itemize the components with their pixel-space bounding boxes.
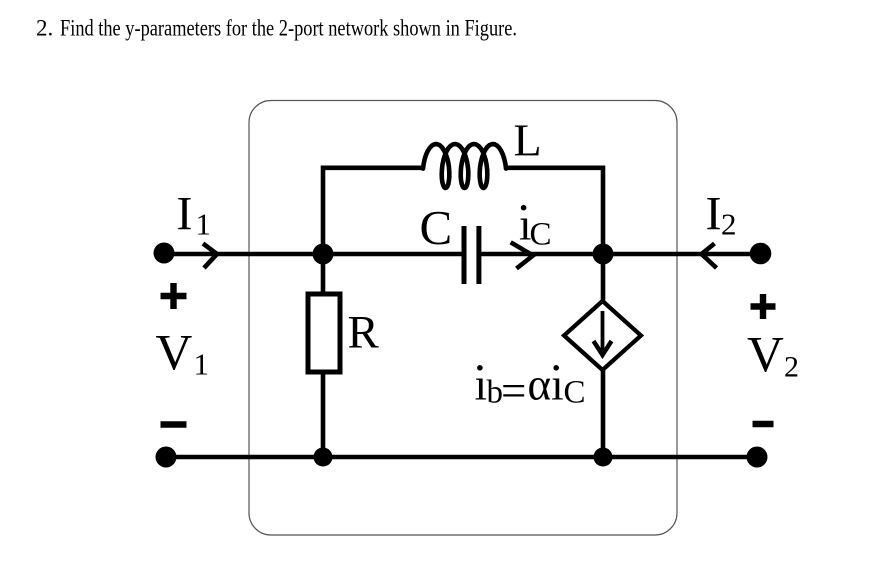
- svg-text:2: 2: [721, 207, 737, 242]
- resistor branch wire upper: [321, 252, 326, 296]
- svg-text:2.: 2.: [36, 16, 53, 41]
- svg-text:=: =: [501, 366, 526, 416]
- resistor R body: [308, 294, 340, 372]
- port2 current I2 arrow: [702, 244, 717, 269]
- wire capacitor to port2: [481, 252, 759, 257]
- port1 minus sign: [161, 421, 187, 427]
- dependent current source ib diamond: [564, 301, 641, 370]
- node dot top-left: [313, 244, 334, 265]
- svg-text:1: 1: [196, 207, 212, 242]
- node dot bottom-right: [594, 448, 613, 467]
- node dot bottom-left: [314, 448, 333, 467]
- network boundary box: [249, 101, 677, 536]
- port2 plus sign: [751, 294, 776, 319]
- svg-text:I: I: [706, 188, 722, 241]
- terminal dot port1 top: [154, 243, 175, 264]
- node dot top-right: [593, 244, 614, 265]
- terminal dot port1 bottom: [156, 447, 177, 468]
- port2 minus sign: [753, 421, 774, 427]
- svg-text:R: R: [348, 307, 380, 359]
- svg-text:I: I: [177, 188, 193, 241]
- svg-text:L: L: [514, 115, 542, 166]
- dependent source branch wire upper: [601, 252, 606, 303]
- port1 plus sign: [161, 283, 187, 309]
- wire top loop (node1 up, across to inductor, and down to node2): [323, 168, 603, 254]
- svg-text:2: 2: [784, 351, 799, 384]
- bottom wire: [164, 455, 757, 460]
- svg-text:C: C: [530, 217, 552, 253]
- svg-text:V: V: [747, 328, 784, 384]
- wire top-left segment (port1 to capacitor): [164, 252, 462, 257]
- svg-text:C: C: [420, 200, 453, 255]
- resistor branch wire lower: [321, 372, 326, 459]
- svg-text:C: C: [564, 375, 586, 411]
- terminal dot port2 top: [750, 243, 772, 265]
- current ic arrow: [511, 242, 533, 268]
- dependent source branch wire lower: [601, 368, 606, 459]
- terminal dot port2 bottom: [747, 447, 768, 468]
- inductor L coil: [423, 144, 506, 188]
- svg-text:Find the y-parameters for the: Find the y-parameters for the 2-port net…: [60, 16, 517, 41]
- dependent source arrow (downward): [601, 311, 605, 351]
- capacitor C plates: [462, 226, 467, 284]
- port1 current I1 arrow: [203, 244, 217, 269]
- svg-text:V: V: [156, 326, 193, 382]
- svg-text:1: 1: [194, 347, 210, 382]
- title text: [36, 16, 517, 41]
